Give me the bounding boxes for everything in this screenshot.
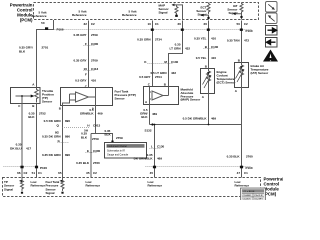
svg-text:2709: 2709 — [91, 33, 98, 37]
svg-text:Reference: Reference — [148, 184, 163, 188]
wire IAT signal — [241, 21, 243, 63]
svg-text:410: 410 — [211, 56, 216, 60]
Fuel Tank Pressure (FTP) sensor box — [61, 88, 113, 106]
svg-text:469: 469 — [98, 112, 103, 116]
svg-text:Reference: Reference — [72, 13, 87, 17]
svg-text:51: 51 — [32, 171, 36, 175]
svg-text:Reference: Reference — [235, 184, 250, 188]
svg-text:2760: 2760 — [93, 161, 100, 165]
svg-text:Signal: Signal — [46, 191, 55, 195]
svg-text:890: 890 — [65, 135, 70, 139]
svg-text:F: F — [85, 42, 87, 46]
connector C130 face (B) — [204, 48, 215, 50]
Engine Coolant Temperature (ECT) sensor box — [201, 69, 215, 94]
svg-text:0.35 DK GRN: 0.35 DK GRN — [42, 153, 61, 157]
TP potentiometer — [35, 88, 39, 103]
svg-text:50: 50 — [237, 22, 241, 26]
svg-text:C3=CLR: C3=CLR — [254, 195, 263, 197]
svg-text:C5=GRY: C5=GRY — [254, 199, 263, 200]
wire MAP low ref — [149, 102, 151, 125]
svg-text:16: 16 — [84, 67, 88, 71]
P100 marker on ECT wire — [207, 29, 210, 31]
svg-text:0.5 GRY: 0.5 GRY — [139, 75, 150, 79]
svg-text:469: 469 — [157, 157, 162, 161]
wire TP 5V ref — [37, 20, 54, 88]
svg-text:C130: C130 — [171, 60, 179, 64]
button zoom out — [266, 2, 278, 13]
IAT thermistor — [240, 63, 244, 88]
svg-text:0.35 TAN: 0.35 TAN — [227, 39, 240, 43]
svg-text:C1 = BLUE: C1 = BLUE — [244, 191, 256, 193]
connector P100 bottom face left — [4, 166, 35, 168]
TP input resistor — [19, 180, 22, 183]
button zoom in — [266, 13, 278, 24]
svg-text:(IAT) Sensor: (IAT) Sensor — [251, 71, 269, 75]
svg-text:DK GRN/BLK: DK GRN/BLK — [134, 157, 154, 161]
P100 marker on TP signal wire — [20, 166, 23, 169]
Intake Air Temperature (IAT) sensor box — [235, 63, 249, 88]
svg-text:P100: P100 — [40, 166, 47, 170]
button next — [266, 26, 278, 36]
wire ECT low ref — [208, 94, 210, 125]
svg-text:26: 26 — [178, 22, 182, 26]
svg-text:Sensor: Sensor — [115, 96, 126, 100]
svg-text:BLK: BLK — [141, 115, 148, 119]
connector face (G) — [58, 142, 69, 144]
wires — [19, 20, 253, 89]
svg-text:Gauge and Console: Gauge and Console — [107, 154, 129, 157]
wire TP signal — [21, 104, 23, 178]
svg-text:417: 417 — [26, 147, 31, 151]
svg-text:C1: C1 — [244, 171, 248, 175]
svg-text:32: 32 — [84, 22, 88, 26]
P100 marker on low ref 47 wire — [240, 166, 243, 169]
svg-text:0.5 LT GRN: 0.5 LT GRN — [151, 71, 167, 75]
svg-text:(ECT) Sensor: (ECT) Sensor — [217, 80, 237, 84]
svg-text:LT GRN: LT GRN — [170, 47, 181, 51]
svg-text:0.5 DK GRN/BLK: 0.5 DK GRN/BLK — [183, 116, 208, 120]
svg-text:0.5 GRY: 0.5 GRY — [75, 79, 86, 83]
connector P100 bottom face right — [146, 166, 251, 168]
svg-text:2759: 2759 — [116, 136, 123, 140]
ECT thermistor — [207, 69, 211, 94]
svg-text:469: 469 — [211, 116, 216, 120]
svg-text:10: 10 — [148, 22, 152, 26]
svg-text:0.35 BLK: 0.35 BLK — [227, 155, 241, 159]
svg-text:2752: 2752 — [39, 112, 46, 116]
svg-text:C1: C1 — [38, 171, 42, 175]
IAT bottom node — [240, 16, 242, 18]
MAP transducer symbol — [149, 87, 151, 103]
svg-text:66: 66 — [17, 171, 21, 175]
MAP pull resistor R-map — [175, 5, 178, 15]
svg-text:2759: 2759 — [92, 137, 99, 141]
svg-text:BLK: BLK — [105, 133, 112, 137]
svg-text:0.5 YEL: 0.5 YEL — [196, 56, 207, 60]
svg-text:2760: 2760 — [246, 155, 253, 159]
bottom PCM — [3, 166, 287, 201]
svg-text:2734: 2734 — [155, 38, 162, 42]
svg-text:50: 50 — [41, 21, 45, 25]
svg-text:45: 45 — [150, 171, 154, 175]
svg-text:F: F — [85, 72, 87, 76]
connector P100 top face — [47, 29, 253, 31]
svg-text:Schematics in IP,: Schematics in IP, — [107, 150, 125, 153]
IAT pull resistor R-iat — [240, 3, 243, 14]
ECT bottom node — [207, 17, 209, 19]
svg-text:C1: C1 — [155, 22, 159, 26]
svg-text:432: 432 — [185, 47, 190, 51]
branch to cluster note — [96, 134, 113, 143]
P100 marker on low ref 45 wire — [153, 166, 156, 169]
note box: instrument cluster — [105, 143, 147, 159]
svg-text:0.5 DK GRN: 0.5 DK GRN — [44, 119, 61, 123]
svg-text:BLK: BLK — [81, 135, 88, 139]
svg-text:416: 416 — [91, 79, 96, 83]
svg-text:C300: C300 — [93, 149, 101, 153]
svg-text:0.35 GRY: 0.35 GRY — [73, 59, 86, 63]
connector C300 face (E) — [86, 152, 97, 154]
P100 marker on TP 5V wire — [45, 27, 48, 30]
svg-text:890: 890 — [65, 153, 70, 157]
svg-text:C130: C130 — [211, 45, 219, 49]
svg-text:Signal: Signal — [4, 187, 13, 191]
svg-text:S132: S132 — [144, 129, 151, 133]
svg-text:E: E — [87, 149, 89, 153]
FTP transducer symbol — [95, 88, 97, 106]
svg-text:Signal: Signal — [228, 11, 237, 15]
low reference bus — [150, 124, 242, 126]
svg-text:BLK: BLK — [19, 49, 26, 53]
wire low ref to PCM 45 — [154, 125, 156, 178]
svg-text:Reference: Reference — [32, 14, 47, 18]
svg-text:C4=BLK: C4=BLK — [243, 199, 252, 200]
svg-text:26: 26 — [204, 22, 208, 26]
FTP input resistor — [60, 180, 63, 183]
svg-text:BLK: BLK — [28, 115, 35, 119]
svg-text:C2=RED: C2=RED — [243, 195, 252, 197]
svg-text:P100: P100 — [57, 28, 64, 32]
ECT pull resistor R-ect — [207, 3, 210, 14]
svg-text:2701: 2701 — [42, 46, 49, 50]
svg-text:Reference: Reference — [122, 13, 137, 17]
svg-text:C2: C2 — [24, 171, 28, 175]
wire IAT low ref — [241, 88, 243, 178]
wire MAP signal — [169, 21, 183, 87]
svg-text:2709: 2709 — [91, 59, 98, 63]
svg-text:410: 410 — [211, 37, 216, 41]
ECT signal arrow — [201, 14, 204, 17]
connector C130 face (L) — [150, 148, 161, 150]
Manifold Absolute Pressure (MAP) sensor box — [144, 87, 179, 105]
svg-text:432: 432 — [171, 71, 176, 75]
svg-text:65: 65 — [58, 171, 62, 175]
svg-text:Sensor: Sensor — [42, 100, 53, 104]
svg-text:47: 47 — [237, 171, 241, 175]
svg-text:(MAP) Sensor: (MAP) Sensor — [181, 98, 202, 102]
svg-text:Reference: Reference — [31, 184, 46, 188]
svg-text:(PCM): (PCM) — [20, 18, 33, 23]
svg-text:469: 469 — [152, 112, 157, 116]
caution triangle — [263, 50, 278, 62]
connector C413 face (16/F) — [84, 70, 95, 72]
connector C130 face (K/M) — [148, 63, 173, 65]
svg-text:C300: C300 — [91, 42, 99, 46]
MAP resistor termination node — [175, 15, 178, 17]
connector C300 face (F) — [84, 45, 95, 47]
wire ECT signal — [208, 21, 210, 69]
svg-text:C2: C2 — [91, 22, 95, 26]
wire TP low ref — [36, 104, 38, 178]
svg-text:C413: C413 — [91, 67, 99, 71]
wire FTP 5V ref — [88, 21, 90, 88]
svg-text:890: 890 — [65, 119, 70, 123]
svg-text:GRN/BLK: GRN/BLK — [80, 112, 94, 116]
svg-text:8G: 8G — [55, 130, 60, 134]
wire FTP signal — [62, 106, 64, 178]
svg-text:C2: C2 — [244, 22, 248, 26]
svg-text:0.35 GRN: 0.35 GRN — [137, 38, 150, 42]
PCM top dashed enclosure — [34, 3, 259, 20]
PCM top box — [10, 3, 259, 27]
connector color legend table — [241, 188, 266, 201]
svg-text:DK BLU: DK BLU — [10, 147, 21, 151]
svg-text:C413: C413 — [93, 124, 101, 128]
P100 marker on MAP signal wire — [181, 29, 184, 31]
button previous — [266, 38, 278, 48]
svg-text:L: L — [151, 145, 153, 149]
svg-text:0.35 GRY: 0.35 GRY — [73, 33, 86, 37]
svg-text:Instrument Cluster: Instrument Cluster — [108, 145, 128, 148]
svg-text:H: H — [87, 124, 89, 128]
P100 marker on IAT wire — [240, 29, 243, 31]
toolbar — [263, 2, 278, 62]
sensors — [10, 63, 269, 178]
MAP internal wire — [174, 5, 183, 20]
splice S132 — [151, 123, 153, 125]
svg-text:0.35 BLK: 0.35 BLK — [76, 161, 90, 165]
svg-text:C2: C2 — [93, 171, 97, 175]
svg-text:2704: 2704 — [155, 75, 162, 79]
wire MAP 5V ref — [152, 21, 154, 87]
Throttle Position (TP) sensor box — [11, 88, 41, 104]
svg-text:Signal: Signal — [159, 10, 168, 14]
connector C413 face (Q) — [62, 127, 90, 129]
IAT signal arrow — [233, 12, 236, 15]
svg-text:P100: P100 — [246, 166, 253, 170]
P100 marker on TP low wire — [35, 166, 38, 169]
P100 marker on MAP 5V wire — [151, 29, 154, 31]
svg-text:C130: C130 — [157, 145, 165, 149]
PCM bottom dashed enclosure — [3, 178, 261, 197]
MAP signal arrow — [172, 4, 175, 7]
TP wiper — [16, 95, 32, 97]
svg-text:P100: P100 — [246, 29, 253, 33]
svg-text:0.35 YEL: 0.35 YEL — [194, 37, 207, 41]
svg-text:Reference: Reference — [86, 184, 101, 188]
svg-text:35: 35 — [86, 171, 90, 175]
svg-text:472: 472 — [244, 39, 249, 43]
wire FTP low ref — [91, 106, 96, 178]
